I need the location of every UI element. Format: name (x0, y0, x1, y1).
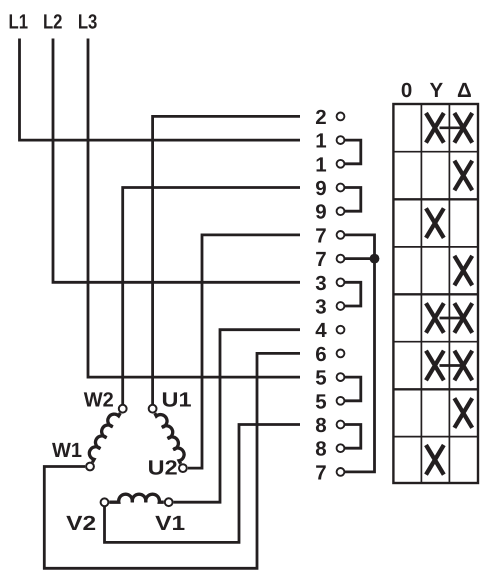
svg-text:9: 9 (315, 201, 326, 224)
svg-text:8: 8 (315, 414, 326, 437)
svg-text:1: 1 (315, 153, 326, 176)
svg-text:3: 3 (315, 296, 326, 319)
svg-text:W2: W2 (84, 388, 114, 411)
svg-text:U2: U2 (148, 456, 178, 479)
svg-text:V1: V1 (155, 512, 185, 535)
svg-text:W1: W1 (52, 439, 82, 462)
svg-text:V2: V2 (66, 512, 96, 535)
svg-text:7: 7 (315, 224, 326, 247)
svg-text:1: 1 (315, 130, 326, 153)
svg-text:U1: U1 (162, 388, 192, 411)
svg-text:7: 7 (315, 248, 326, 271)
svg-text:L1: L1 (9, 10, 29, 33)
svg-text:4: 4 (315, 319, 327, 342)
svg-text:6: 6 (315, 343, 326, 366)
svg-text:Y: Y (429, 79, 443, 102)
svg-text:7: 7 (315, 461, 326, 484)
svg-text:0: 0 (401, 79, 412, 102)
svg-text:5: 5 (315, 390, 326, 413)
svg-text:9: 9 (315, 177, 326, 200)
svg-text:5: 5 (315, 367, 326, 390)
svg-text:8: 8 (315, 438, 326, 461)
svg-text:Δ: Δ (457, 79, 472, 102)
svg-text:2: 2 (315, 106, 326, 129)
svg-text:L3: L3 (78, 10, 98, 33)
svg-text:L2: L2 (43, 10, 63, 33)
svg-text:3: 3 (315, 272, 326, 295)
